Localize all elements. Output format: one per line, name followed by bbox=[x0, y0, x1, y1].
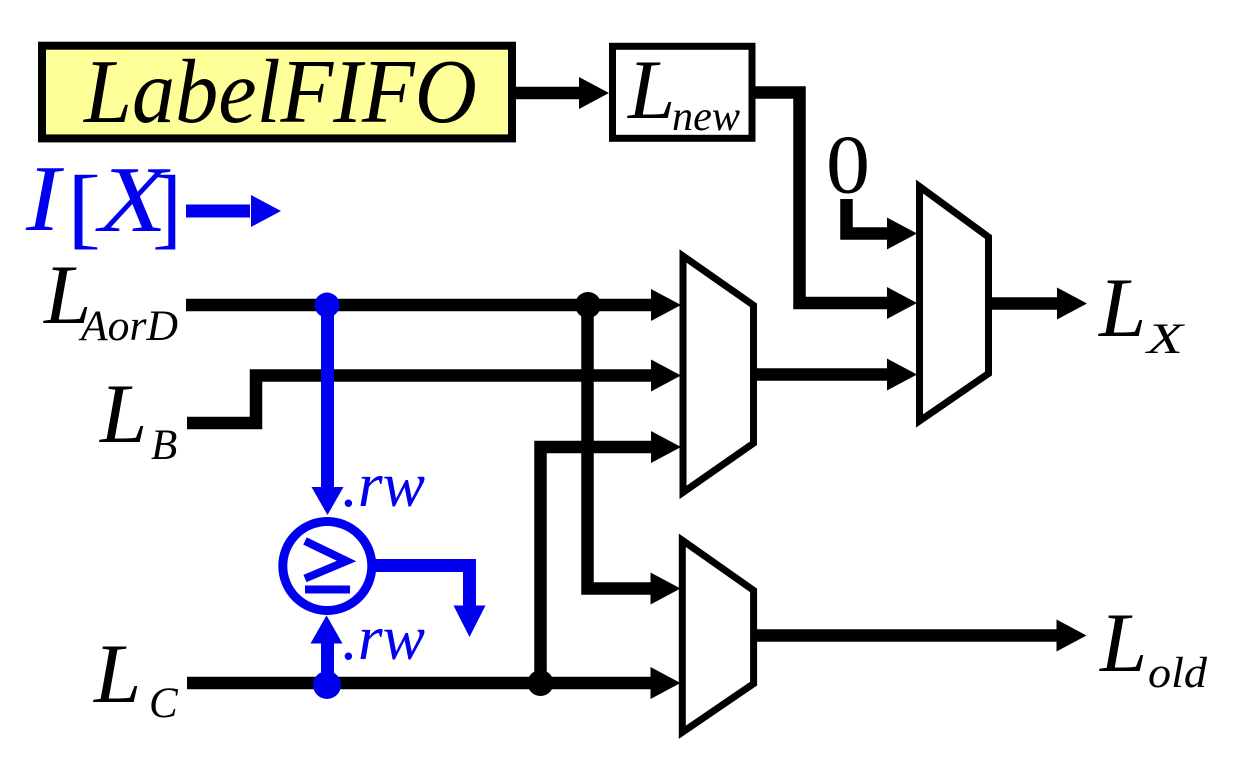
svg-text:L: L bbox=[1099, 596, 1147, 690]
svg-text:X: X bbox=[1144, 316, 1185, 363]
svg-text:[: [ bbox=[67, 159, 101, 258]
svg-text:]: ] bbox=[152, 159, 182, 258]
svg-text:L: L bbox=[627, 43, 675, 137]
svg-text:.rw: .rw bbox=[342, 449, 425, 520]
svg-text:L: L bbox=[93, 627, 141, 721]
svg-text:new: new bbox=[672, 94, 740, 140]
svg-text:L: L bbox=[99, 367, 147, 461]
svg-text:B: B bbox=[151, 422, 177, 469]
svg-text:C: C bbox=[149, 680, 179, 727]
svg-text:I: I bbox=[25, 147, 64, 251]
svg-text:0: 0 bbox=[826, 119, 870, 212]
svg-text:.rw: .rw bbox=[342, 602, 425, 673]
svg-text:old: old bbox=[1148, 650, 1208, 697]
svg-text:L: L bbox=[1098, 261, 1146, 355]
svg-text:LabelFIFO: LabelFIFO bbox=[82, 41, 477, 142]
svg-text:AorD: AorD bbox=[78, 303, 178, 350]
